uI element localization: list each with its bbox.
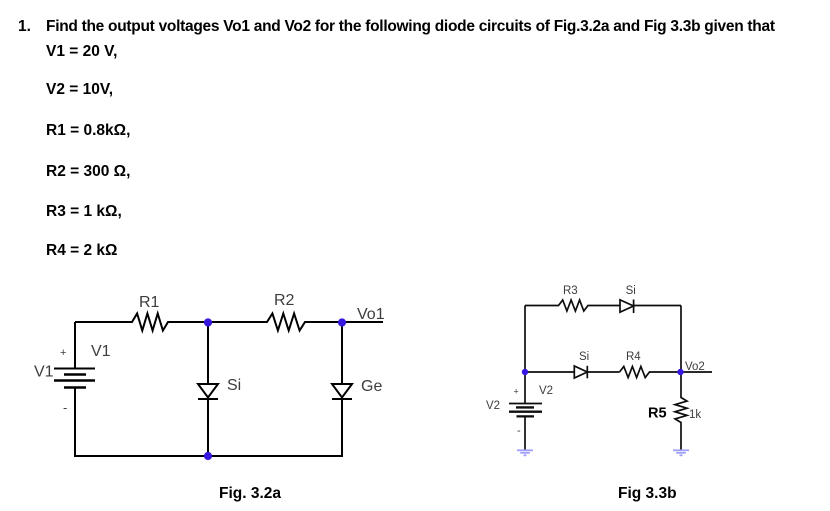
svg-text:Si: Si (626, 285, 636, 297)
svg-text:R1: R1 (139, 294, 160, 311)
svg-text:R2: R2 (274, 292, 295, 309)
svg-text:-: - (517, 425, 521, 437)
svg-text:Si: Si (227, 377, 241, 394)
svg-text:V2: V2 (486, 400, 500, 412)
svg-text:V2: V2 (539, 385, 553, 397)
svg-text:R3: R3 (563, 285, 578, 297)
svg-text:+: + (514, 387, 519, 397)
svg-text:R4: R4 (626, 351, 641, 363)
svg-text:Vo2: Vo2 (685, 361, 705, 373)
svg-text:V1: V1 (34, 364, 54, 381)
svg-text:Vo1: Vo1 (357, 306, 385, 323)
svg-text:V1: V1 (91, 343, 111, 360)
svg-text:Ge: Ge (361, 378, 382, 395)
svg-text:Si: Si (579, 351, 589, 363)
svg-text:-: - (63, 400, 67, 415)
svg-text:1k: 1k (689, 409, 701, 421)
svg-text:R5: R5 (648, 406, 667, 422)
svg-text:+: + (60, 347, 66, 359)
